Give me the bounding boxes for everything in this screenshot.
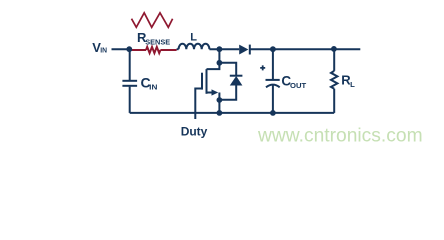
svg-text:SENSE: SENSE xyxy=(145,37,170,46)
svg-text:L: L xyxy=(350,80,355,89)
svg-text:L: L xyxy=(190,32,197,44)
svg-text:Duty: Duty xyxy=(181,125,208,139)
svg-text:IN: IN xyxy=(100,46,107,55)
svg-text:www.cntronics.com: www.cntronics.com xyxy=(257,125,423,147)
svg-text:IN: IN xyxy=(149,83,157,92)
svg-text:OUT: OUT xyxy=(290,81,307,90)
